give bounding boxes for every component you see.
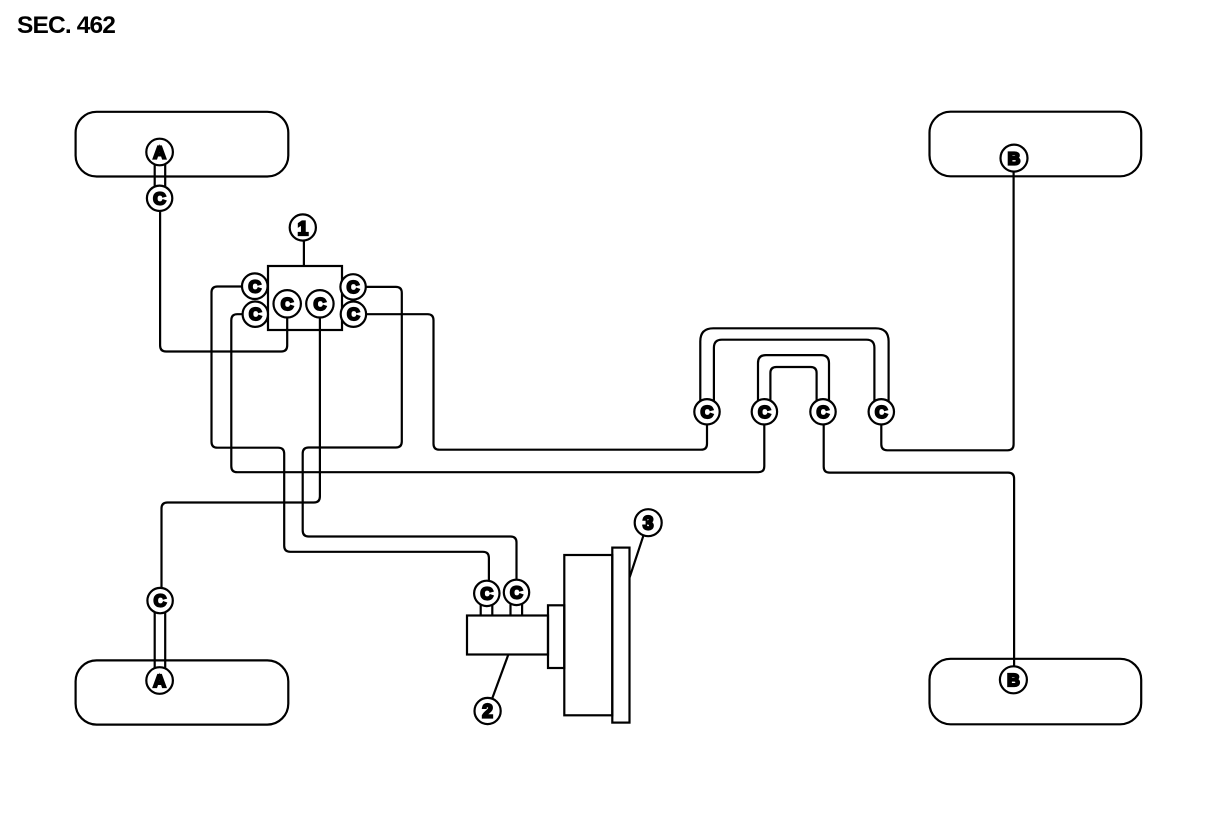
master cylinder flange: [548, 605, 564, 668]
wheel rear-left (bottom-left tire): [76, 660, 289, 724]
label 2 leader: [492, 654, 508, 698]
svg-text:3: 3: [643, 513, 654, 534]
port C valve inner-right: [306, 290, 333, 317]
svg-text:C: C: [154, 591, 167, 611]
hose C2-C3 inner line (center arch): [770, 367, 816, 401]
hose A-C bottom-left (double line stem): [155, 613, 166, 669]
svg-text:C: C: [314, 294, 327, 314]
label 2: [475, 698, 501, 724]
stem master cylinder connector C right (double line): [511, 604, 523, 615]
svg-text:C: C: [281, 294, 294, 314]
master cylinder 2 body: [467, 616, 548, 655]
junction C2 (center): [752, 399, 777, 424]
node C (bottom-left union): [147, 588, 172, 613]
svg-text:C: C: [875, 402, 888, 422]
hose A-C top-left (double line stem): [155, 165, 166, 187]
port C valve inner-left: [274, 290, 301, 317]
brake booster body: [564, 555, 612, 715]
svg-text:C: C: [701, 402, 714, 422]
label 1: [290, 214, 316, 240]
label 1 leader: [303, 240, 305, 266]
node B (top-right wheel): [1001, 145, 1028, 172]
svg-text:A: A: [153, 142, 166, 162]
svg-text:1: 1: [298, 219, 309, 240]
node C (top-left union): [147, 186, 172, 211]
hose C2-C3 outer line (center arch): [758, 355, 829, 402]
connector C master cylinder left: [474, 581, 499, 606]
wheel front-left (top-left tire): [76, 112, 289, 177]
wheel front-right (top-right tire): [930, 112, 1142, 177]
port C valve left-top: [242, 273, 268, 299]
valve block 1 (proportioning valve): [268, 266, 342, 330]
svg-text:SEC. 462: SEC. 462: [17, 12, 115, 39]
wire: pipe valve port C right-top to master cylinder connector C right: [303, 287, 517, 581]
port C valve left-bottom: [243, 302, 268, 327]
wire: pipe from connector C top-left to port C on valve 1 bottom-left: [160, 211, 287, 352]
svg-text:C: C: [153, 188, 166, 208]
label 3: [635, 509, 662, 536]
hose C1-C4 outer line (center arch): [700, 328, 888, 402]
junction C3 (center): [810, 399, 835, 424]
wire: pipe valve port C left-top to master cylinder connector C left: [212, 287, 489, 582]
label 3 leader: [630, 535, 644, 577]
wire: pipe valve port C right-bottom to center junction C1: [366, 314, 707, 450]
node A (top-left wheel): [146, 139, 173, 166]
port C valve right-bottom: [341, 302, 366, 327]
svg-text:C: C: [249, 304, 262, 324]
svg-text:A: A: [153, 671, 166, 691]
wheel rear-right (bottom-right tire): [930, 659, 1142, 725]
hose C1-C4 inner line (center arch): [714, 340, 875, 401]
svg-text:C: C: [510, 582, 523, 602]
svg-text:C: C: [758, 402, 771, 422]
connector C master cylinder right: [504, 580, 529, 605]
wire: pipe junction C3 to bottom-right wheel B: [824, 424, 1014, 666]
brake booster plate 3: [612, 548, 629, 723]
node B (bottom-right wheel): [1000, 666, 1027, 693]
svg-text:C: C: [347, 304, 360, 324]
junction C4 (center): [869, 399, 894, 424]
svg-text:B: B: [1008, 148, 1021, 168]
junction C1 (center): [694, 399, 719, 424]
svg-text:C: C: [480, 583, 493, 603]
svg-text:B: B: [1007, 670, 1020, 690]
svg-text:C: C: [817, 402, 830, 422]
wire: pipe from valve 1 port C (inner right) to connector C bottom-left: [162, 318, 320, 589]
port C valve right-top: [340, 274, 365, 299]
svg-text:C: C: [347, 277, 360, 297]
stem master cylinder connector C left (double line): [481, 605, 493, 616]
node A (bottom-left wheel): [146, 667, 173, 694]
svg-text:2: 2: [482, 702, 493, 723]
svg-text:C: C: [248, 276, 261, 296]
wire: pipe junction C4 to rear... top-right wheel B: [881, 172, 1013, 451]
wire: pipe valve port C left-bottom to center junction C2: [231, 314, 764, 472]
